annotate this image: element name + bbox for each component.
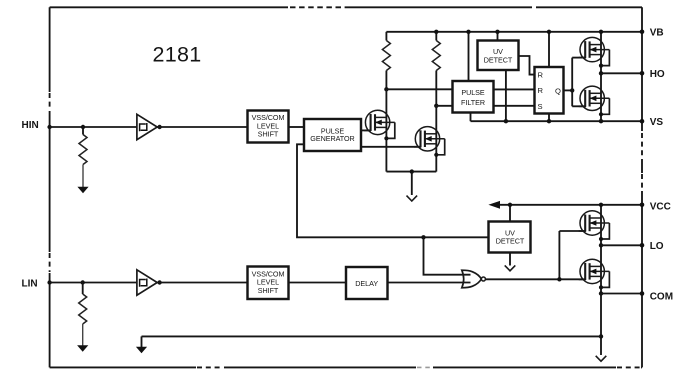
wire pulse filter to latch R2 [494,88,535,90]
junction COM node [599,291,603,295]
resistor HIN pulldown [79,127,87,188]
block UV detect low side [489,222,531,253]
junction NOR output [557,277,561,281]
wire M2 drain-source rail [435,106,437,172]
wire HIN input [50,126,138,128]
svg-text:Q: Q [555,86,561,95]
rail VS high side [471,120,643,122]
wire M1 drain-source rail [385,89,387,171]
junction UV detect VCC [508,203,512,207]
wire COM output [601,293,642,295]
wire level shift reset to pulse filter [436,105,452,107]
ground arrow COM (output stage) [596,356,607,361]
svg-text:LIN: LIN [22,278,38,289]
transistor M1 HV level shift [364,110,395,140]
wire buffer A to level shift [157,126,247,128]
wire latch top to VB [548,32,550,67]
junction Q node [570,88,574,92]
junction LIN pulldown [81,280,85,284]
svg-text:HO: HO [650,69,665,80]
svg-text:SHIFT: SHIFT [258,130,279,139]
svg-text:PULSE: PULSE [461,88,485,97]
junction R2 top on VB rail [434,30,438,34]
wire pulse generator feedback [297,144,489,237]
svg-text:VB: VB [650,28,664,39]
wire pulse generator to M1 gate [361,129,371,131]
junction M1 drain node [384,87,388,91]
wire level shift to pulse generator [289,126,305,128]
pin HO [640,69,665,80]
junction buffer A output [157,125,161,129]
junction totem VCC [599,203,603,207]
wire LO output [601,244,642,246]
wire UV detect top to VCC [509,205,511,221]
transistor output low side upper [579,211,610,241]
pin COM [640,291,673,302]
svg-text:R: R [538,70,544,79]
wire level shifter common source [386,171,436,173]
pin LO [640,241,664,252]
resistor R2 level shift load [432,32,440,106]
wire Q to output gates [572,58,586,107]
svg-text:VS: VS [650,117,664,128]
junction HO node [599,71,603,75]
svg-text:GENERATOR: GENERATOR [310,134,354,143]
pin LIN [22,278,52,289]
wire buffer B to level shift [157,282,247,284]
svg-text:DELAY: DELAY [355,279,378,288]
wire high side totem rail [600,32,602,121]
junction LO node [599,243,603,247]
pin VCC [640,202,671,213]
transistor output low side lower [579,259,610,289]
junction totem VB [599,30,603,34]
wire pulse generator to M2 gate [361,146,421,148]
schmitt trigger buffer B (LIN) [137,270,157,295]
schmitt trigger buffer A (HIN) [137,114,157,139]
svg-text:LO: LO [650,241,664,252]
svg-text:COM: COM [650,291,673,302]
rail VCC [497,204,642,206]
rail VB [386,31,642,33]
svg-text:FILTER: FILTER [461,98,485,107]
wire feedback to NOR input [424,237,471,274]
svg-text:S: S [538,102,543,111]
block UV detect high side [478,41,519,71]
gate NOR [462,270,486,288]
ground arrow COM (UV detect) [505,253,516,271]
wire pulse filter to latch S [494,105,535,107]
svg-text:SHIFT: SHIFT [258,286,279,295]
svg-text:DETECT: DETECT [496,237,525,246]
ground arrow COM (level shifter) [407,172,418,201]
block VSS/COM level shift (low side) [248,267,289,300]
junction latch VS [547,119,551,123]
wire UV detect bottom to VS [505,70,507,121]
wire low side totem rail [600,205,602,294]
block delay [346,267,388,299]
block pulse filter [453,81,494,113]
arrow to VCC supply [488,201,500,209]
wire HO output [601,72,642,74]
svg-text:HIN: HIN [22,120,39,131]
junction HIN pulldown [81,125,85,129]
block RS latch [535,67,564,114]
transistor output high side lower [579,86,610,116]
svg-text:DETECT: DETECT [484,56,513,65]
junction VSS return tap [599,334,603,338]
junction UV detect VS [504,119,508,123]
wire delay to NOR input [388,282,471,284]
pin VB [640,28,664,39]
junction buffer B output [157,280,161,284]
wire pulse filter bottom to VS [470,113,472,122]
wire level shift to delay [289,282,347,284]
svg-text:2181: 2181 [153,43,202,67]
wire UV detect top to VB [497,32,499,41]
junction level shifter source [410,169,414,173]
wire latch bottom to VS [548,114,550,122]
junction latch VB [547,30,551,34]
block VSS/COM level shift (high side) [248,111,289,143]
resistor LIN pulldown [79,283,87,347]
junction output stage VS [599,119,603,123]
junction UV detect VB [495,30,499,34]
transistor M2 HV level shift [414,127,445,157]
wire VSS return line [142,336,602,347]
wire NOR output to gates [486,231,587,279]
block pulse generator [304,119,361,151]
svg-text:R: R [538,86,544,95]
wire pulse filter top to VB [468,32,470,81]
ground arrow VSS (LIN pulldown) [77,345,88,352]
ground arrow VSS (return line) [136,347,147,354]
junction pulse filter VB [466,30,470,34]
transistor output high side upper [579,37,610,67]
wire LIN input [50,282,138,284]
resistor R1 level shift load [382,32,390,90]
junction feedback branch [421,235,425,239]
svg-text:UV: UV [493,47,503,56]
wire latch Q output [564,89,573,91]
svg-text:VCC: VCC [650,202,671,213]
junction M2 drain node [434,104,438,108]
wire level shift set to pulse filter [386,88,452,90]
wire COM to substrate [600,294,602,356]
wire UV detect to latch R1 [519,56,535,75]
pin VS [640,117,664,128]
pin HIN [22,120,52,131]
ground arrow VSS (HIN pulldown) [77,187,88,194]
